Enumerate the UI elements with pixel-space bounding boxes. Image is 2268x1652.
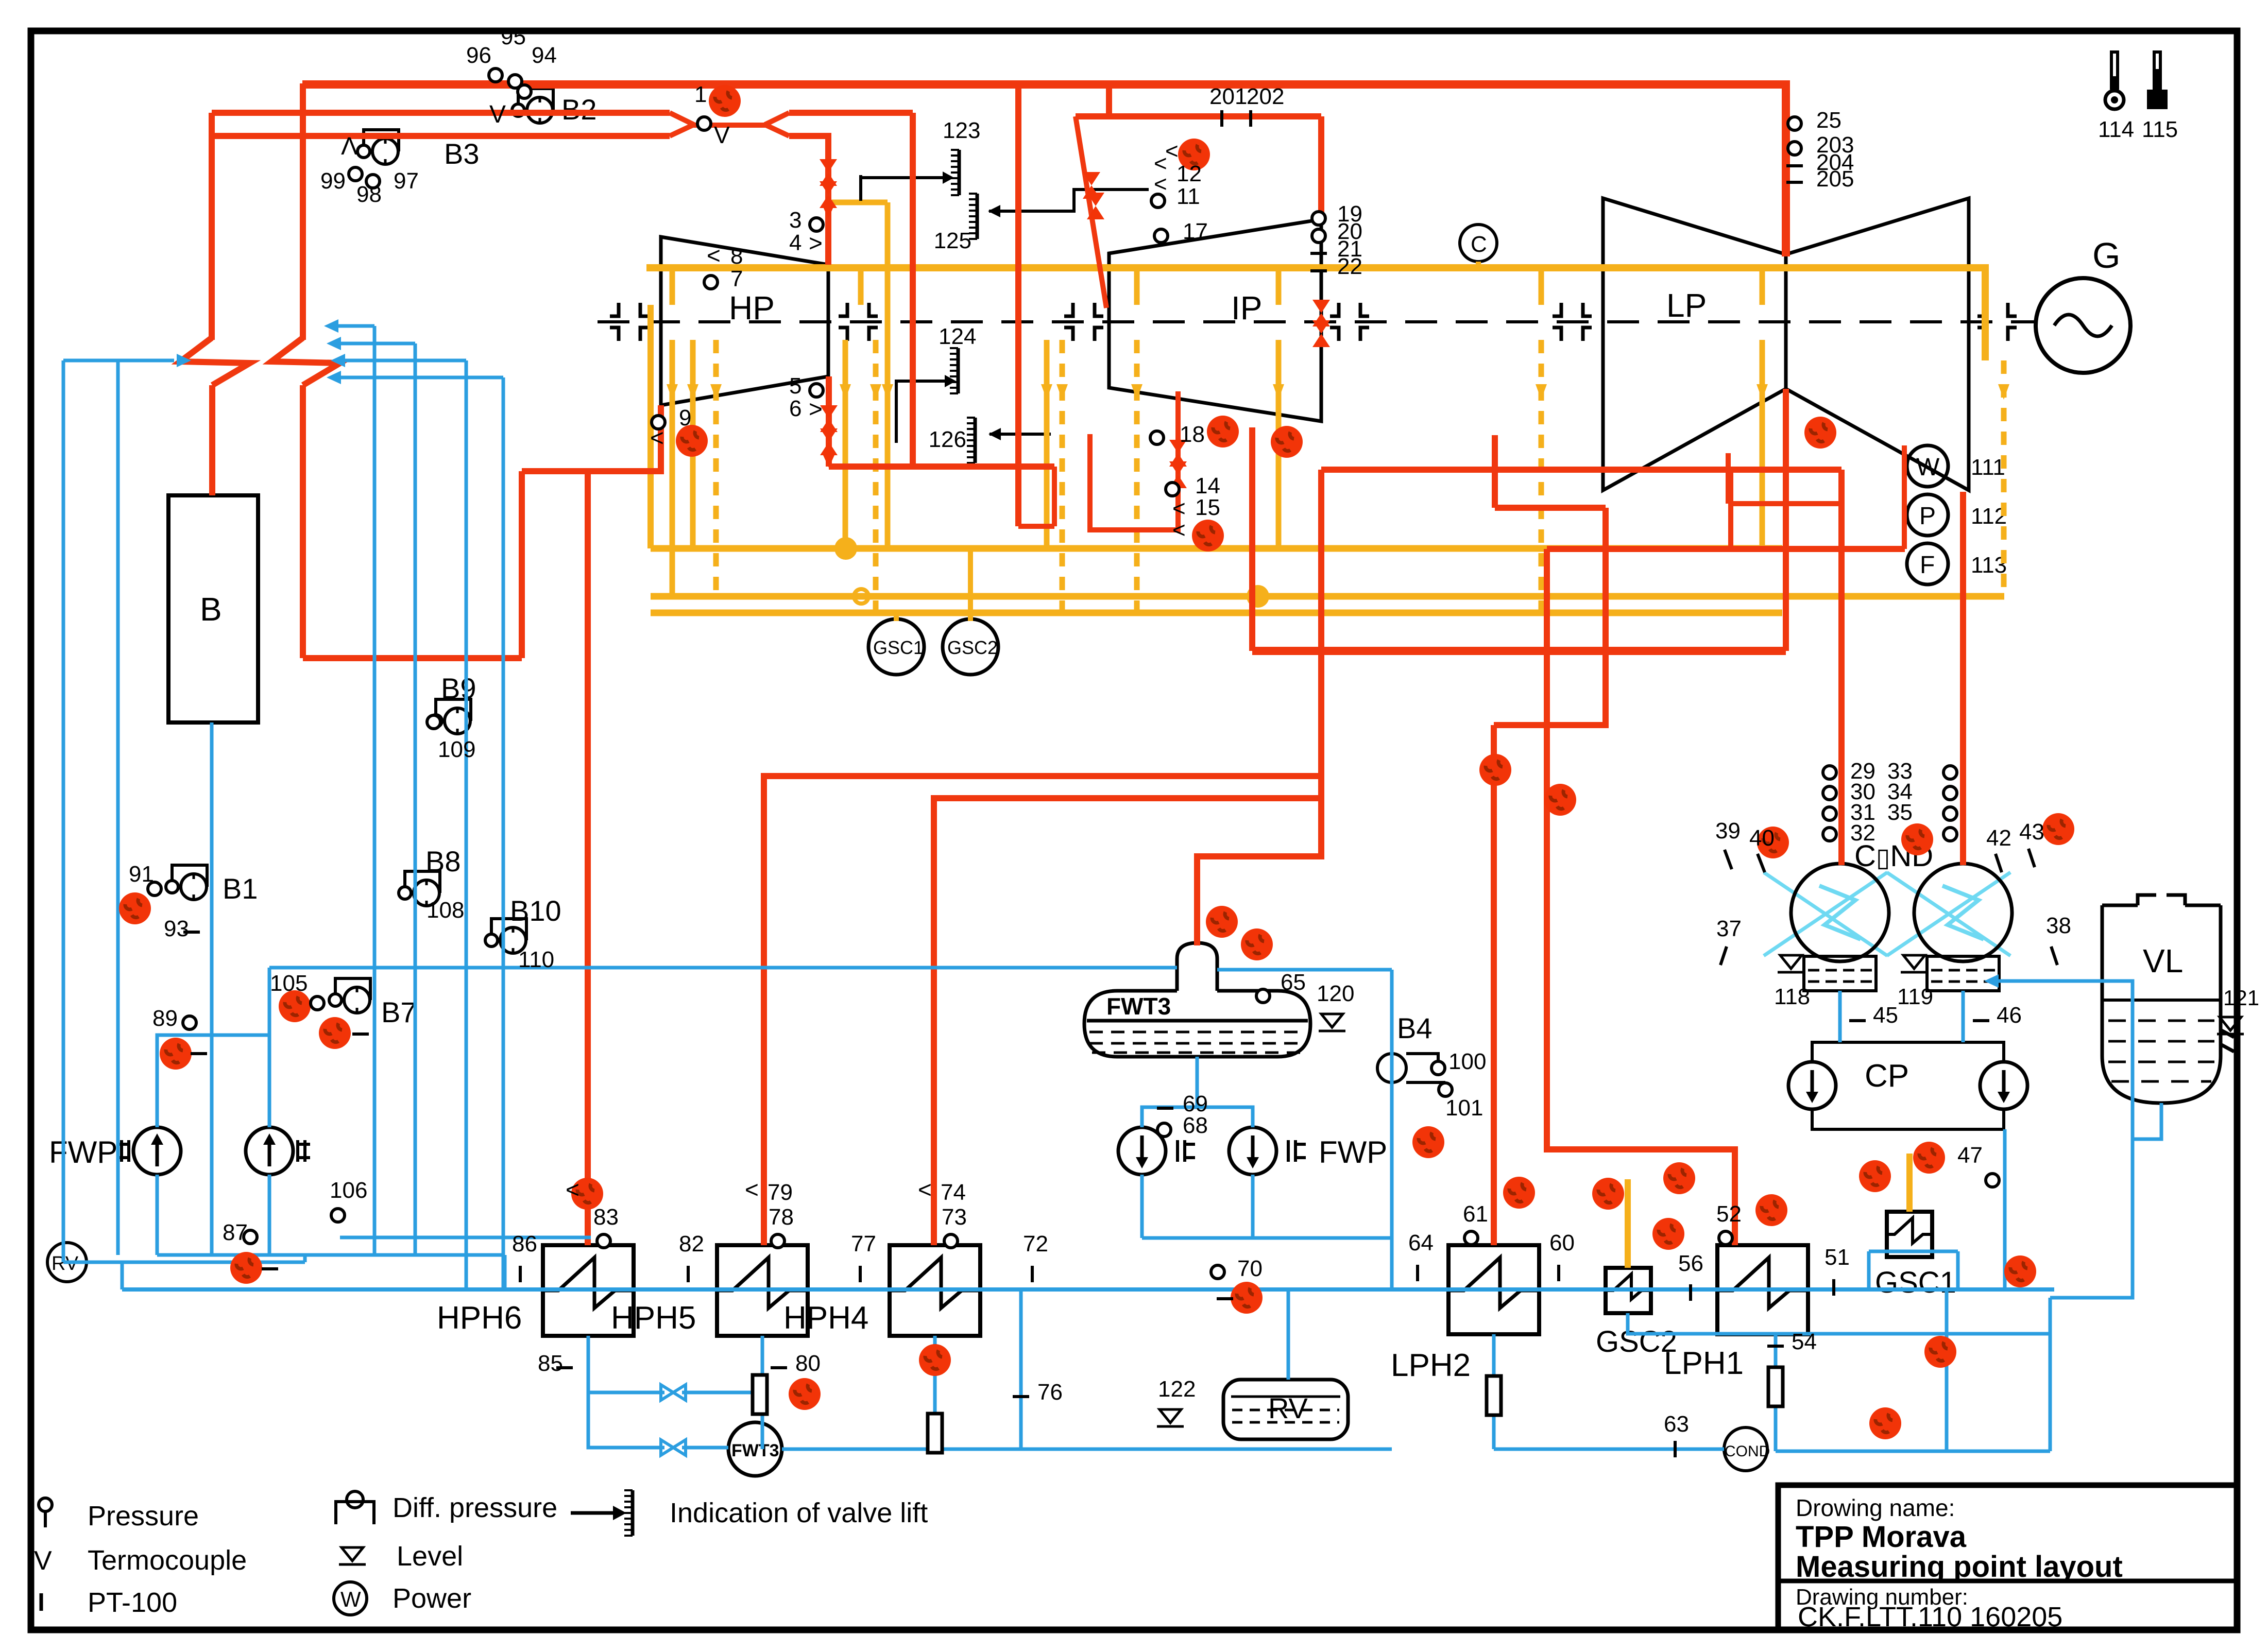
COND small circle (1724, 1427, 1770, 1471)
heater HPH4 (783, 1245, 980, 1336)
svg-text:<: < (918, 1176, 932, 1203)
svg-text:<: < (1165, 139, 1179, 164)
extraction to HPH5 (764, 776, 1322, 1245)
title block (1778, 1485, 2237, 1632)
svg-text:96: 96 (466, 43, 491, 68)
gland steam header (top) (646, 268, 1985, 360)
measuring fan marker at 3239,2396 (1652, 1218, 1684, 1250)
cond2 out (1962, 991, 1965, 1042)
cond1 out (1838, 991, 1842, 1042)
svg-text:V: V (714, 122, 730, 148)
svg-text:93: 93 (164, 916, 189, 941)
boiler steam riser upper (209, 113, 215, 340)
junction ring (854, 589, 868, 604)
spray header y=733 (340, 376, 503, 380)
svg-text:42: 42 (1986, 825, 2011, 851)
steam line throat (693, 123, 766, 128)
riser 2 (414, 343, 417, 1255)
svg-text:125: 125 (934, 228, 971, 253)
diff pressure sensor B1 (166, 865, 258, 905)
valve arrow (823, 206, 834, 218)
downcomer to reheat lower (300, 385, 306, 658)
svg-text:83: 83 (593, 1204, 619, 1230)
measuring fan marker at 2498,858 (1271, 426, 1303, 458)
shaft gland x=1666 (839, 303, 878, 341)
measuring fan marker at 262,1764 (119, 892, 151, 924)
svg-text:73: 73 (942, 1204, 967, 1230)
svg-text:54: 54 (1792, 1329, 1817, 1354)
B4 line (1390, 970, 1394, 1289)
svg-text:8: 8 (730, 244, 743, 269)
blue valve at 1307,2704 (661, 1385, 686, 1400)
svg-text:PT-100: PT-100 (88, 1587, 177, 1618)
cold reheat up (519, 471, 525, 658)
RV link drop (303, 1255, 307, 1262)
LP extraction mid (1728, 470, 1733, 549)
GSC1 loop top (1869, 1250, 1958, 1253)
gland steam bus 1 (651, 545, 1782, 552)
crossover to condenser (1321, 467, 1841, 473)
svg-text:W: W (340, 1587, 361, 1611)
svg-text:118: 118 (1774, 984, 1810, 1009)
svg-text:5: 5 (789, 373, 802, 399)
svg-text:Indication of valve lift: Indication of valve lift (670, 1498, 928, 1528)
gland steam drop x=1345 (690, 340, 696, 548)
measuring fan marker at 3922,2469 (2004, 1255, 2036, 1287)
measuring fan marker at 3640,2284 (1859, 1160, 1891, 1192)
measuring fan marker at 3442,1636 (1757, 827, 1789, 858)
svg-text:60: 60 (1549, 1230, 1575, 1255)
svg-text:6: 6 (789, 396, 802, 421)
svg-text:68: 68 (1183, 1113, 1208, 1138)
svg-text:76: 76 (1037, 1380, 1063, 1405)
HP inlet branch (910, 113, 916, 467)
measuring fan marker at 3122,2318 (1592, 1178, 1624, 1210)
svg-text:GSC2: GSC2 (947, 637, 998, 658)
svg-text:W: W (1916, 454, 1940, 481)
svg-text:GSC1: GSC1 (873, 637, 924, 658)
shaft gland x=1222 (610, 303, 649, 341)
svg-text:109: 109 (438, 737, 475, 762)
legend: diff pressure (336, 1491, 557, 1524)
measuring fan marker at 1343,856 (676, 425, 708, 457)
heater LPH1 (1664, 1245, 1808, 1381)
LP exhaust to COND2 (1960, 492, 1966, 865)
measuring fan marker at 1815,2641 (919, 1344, 951, 1376)
diff pressure sensor B9 (430, 672, 476, 734)
RV circle (47, 1243, 87, 1282)
svg-text:65: 65 (1281, 970, 1306, 995)
svg-text:7: 7 (730, 266, 743, 291)
svg-text:99: 99 (320, 168, 346, 194)
steam to FWT3 (1197, 470, 1321, 945)
IP inlet right (1318, 116, 1324, 219)
svg-text:32: 32 (1850, 820, 1875, 846)
measuring fan marker at 3660,2764 (1869, 1407, 1901, 1439)
svg-text:110: 110 (518, 947, 554, 972)
GSC2 stem (968, 548, 973, 621)
measuring fan marker at 341,2046 (160, 1038, 192, 1070)
gland steam drop x=3421 (1760, 340, 1765, 548)
valve stem elbow (859, 175, 862, 201)
gland steam drop x=2062 (1060, 340, 1065, 613)
IP exhaust link (1495, 505, 1606, 511)
heater HPH6 (437, 1245, 634, 1336)
svg-text:F: F (1920, 552, 1935, 579)
IP feed tee (1106, 84, 1112, 116)
HP bottom drain (826, 376, 832, 467)
measuring fan marker at 3722,1630 (1901, 823, 1933, 855)
FWP discharge drop (503, 1255, 507, 1289)
svg-text:78: 78 (769, 1204, 794, 1230)
svg-text:Measuring point layout: Measuring point layout (1796, 1550, 2123, 1584)
pump1 out (156, 1175, 159, 1255)
measuring fan marker at 2374,838 (1207, 416, 1239, 448)
svg-text:86: 86 (512, 1231, 537, 1257)
gland steam drop x=1723 (885, 202, 891, 548)
svg-text:121: 121 (2223, 986, 2259, 1010)
svg-text:202: 202 (1247, 84, 1284, 109)
svg-text:108: 108 (427, 898, 464, 923)
HP exhaust header (829, 463, 1054, 470)
svg-text:Power: Power (393, 1583, 471, 1614)
HP turbine (661, 237, 828, 405)
valve lift ruler 125 (934, 190, 1149, 253)
svg-text:GSC1: GSC1 (1875, 1266, 1956, 1299)
condenser COND at x=3811 (1887, 864, 2012, 1009)
svg-text:123: 123 (943, 118, 980, 143)
GSC2 drain (1628, 1313, 2050, 1334)
FWP pumps (left) (49, 1127, 310, 1175)
deaerator suction line (269, 966, 1177, 970)
valve lift ruler 123 (861, 118, 980, 195)
thermometer 115 (2142, 50, 2178, 142)
GSC2 supply (1625, 1179, 1631, 1268)
HP exhaust (522, 405, 661, 471)
orifice at 3447,2655 (1768, 1367, 1783, 1406)
gland stub top x=2207 (1134, 268, 1140, 305)
diff pressure sensor B3 (357, 130, 480, 170)
diff pressure sensor B7 (329, 978, 417, 1028)
C stem (1476, 262, 1481, 268)
orifice at 1815,2745 (928, 1414, 942, 1453)
valve at 2565,608 (1312, 300, 1330, 326)
svg-text:77: 77 (851, 1231, 876, 1257)
svg-text:126: 126 (929, 427, 966, 452)
svg-text:119: 119 (1897, 984, 1933, 1009)
svg-text:B: B (200, 591, 222, 628)
svg-text:IP: IP (1231, 289, 1262, 326)
heater HPH5 (611, 1245, 808, 1336)
GSC1 stem (894, 613, 899, 621)
measuring fan marker at 1140,2318 (571, 1178, 603, 1210)
IP inlet slant (1076, 116, 1106, 308)
extraction header lower (1547, 546, 1905, 552)
svg-text:82: 82 (679, 1231, 704, 1257)
valve lift ruler 126 (929, 418, 1051, 463)
svg-text:18: 18 (1180, 422, 1205, 447)
svg-text:47: 47 (1957, 1143, 1983, 1168)
attemperator zigzag (180, 338, 250, 385)
pumpR2 out (1251, 1175, 1255, 1238)
svg-text:LPH2: LPH2 (1391, 1348, 1471, 1383)
gland steam bus 3 (651, 610, 1782, 616)
GSC1 loop a (1867, 1251, 1871, 1290)
svg-text:25: 25 (1816, 108, 1841, 133)
svg-text:51: 51 (1824, 1245, 1850, 1270)
riser 4 (502, 377, 505, 1289)
svg-text:89: 89 (152, 1006, 178, 1031)
diff pressure sensor B8 (399, 845, 461, 906)
svg-text:111: 111 (1971, 455, 2005, 480)
gland stub top x=1671 (858, 268, 864, 305)
HPH6 drain A (588, 1336, 664, 1392)
svg-text:64: 64 (1408, 1230, 1434, 1255)
svg-text:105: 105 (270, 971, 308, 996)
svg-text:B7: B7 (381, 996, 417, 1028)
legend: level (339, 1541, 463, 1572)
HP bypass return (1052, 467, 1057, 526)
junction dot (1247, 585, 1269, 608)
pump suction loop (157, 1035, 269, 1127)
aux line 106 (340, 1236, 591, 1240)
boiler steam riser lower (209, 385, 215, 495)
gland steam bus 2 (651, 593, 2004, 600)
svg-text:94: 94 (532, 43, 557, 68)
LP extraction link (1728, 501, 1841, 506)
svg-text:P: P (1919, 503, 1936, 530)
measuring fan marker at 1407,196 (709, 85, 741, 117)
valve at 2565,648 (1312, 320, 1330, 347)
C sensor circle (1460, 225, 1497, 262)
LP turbine (1603, 198, 1969, 490)
svg-text:79: 79 (768, 1180, 793, 1205)
spray into attemperator 1 (63, 359, 174, 363)
steam to LPH1 (1547, 549, 1735, 1245)
svg-text:115: 115 (2142, 117, 2178, 142)
svg-text:37: 37 (1716, 916, 1742, 941)
svg-text:101: 101 (1445, 1095, 1483, 1121)
HPH4 drain (933, 1336, 937, 1414)
condensate/feed main (122, 1287, 2054, 1292)
condensate pumps CP (1788, 1042, 2027, 1129)
pump2 out (268, 1175, 271, 1255)
RV flash tank (1157, 1376, 1348, 1439)
svg-text:39: 39 (1715, 818, 1741, 844)
valve at 1609,858 (820, 428, 838, 455)
svg-text:GSC2: GSC2 (1596, 1325, 1677, 1358)
CP discharge (2003, 1129, 2007, 1290)
LPH2 drain (1492, 1334, 1496, 1449)
diff pressure sensor B10 (485, 894, 561, 953)
valve at 1608,378 (820, 181, 837, 208)
FWT3 deaerator tank (1084, 943, 1310, 1057)
gland steam drop x=3890 (2001, 360, 2007, 596)
LPH1 drain (1774, 1334, 1778, 1451)
gland stub top x=2482 (1276, 268, 1282, 305)
svg-text:B9: B9 (441, 672, 476, 704)
valve at 2119,360 (1083, 172, 1100, 199)
right web drop (2049, 1298, 2052, 1451)
HPH6 drain B (588, 1392, 664, 1448)
generator G (2036, 235, 2130, 373)
W P F legend circles (1907, 445, 2007, 584)
gland steam drop x=1641 (843, 340, 848, 548)
to COND circle (1494, 1448, 1724, 1451)
svg-text:FWP: FWP (1319, 1135, 1387, 1169)
FWP discharge header (157, 1253, 505, 1257)
drain header (1776, 1450, 2050, 1453)
76 drop (1019, 1289, 1023, 1449)
valve at 1609,813 (820, 405, 838, 432)
svg-text:B8: B8 (425, 845, 461, 877)
gland steam drop x=2992 (1539, 340, 1544, 613)
junction dot (834, 537, 857, 560)
svg-text:Termocouple: Termocouple (88, 1545, 247, 1576)
measuring fan marker at 650,2006 (319, 1017, 351, 1049)
boiler downcomer (210, 722, 214, 1255)
svg-text:B4: B4 (1397, 1012, 1433, 1044)
svg-text:17: 17 (1183, 219, 1208, 244)
heater LPH2 (1391, 1245, 1539, 1383)
measuring point labels (129, 24, 2071, 1457)
svg-text:122: 122 (1158, 1376, 1196, 1402)
svg-text:63: 63 (1664, 1412, 1689, 1437)
bypass U (1018, 524, 1054, 529)
svg-text:38: 38 (2046, 913, 2071, 938)
measuring fan marker at 3029,1553 (1544, 784, 1576, 816)
svg-text:61: 61 (1463, 1201, 1488, 1227)
steam line lower b / HP inlet (789, 136, 828, 265)
RV tank feed (1287, 1289, 1290, 1380)
IP extraction 2 (1249, 427, 1255, 651)
FWT3 down B (1197, 1107, 1253, 1127)
cold reheat bottom (303, 655, 522, 661)
shaft gland x=2104 (1064, 303, 1103, 341)
svg-text:11: 11 (1176, 184, 1200, 209)
svg-text:72: 72 (1023, 1231, 1048, 1257)
svg-text:<: < (566, 1176, 579, 1203)
extraction to HPH4 (934, 798, 1322, 1245)
measuring fan marker at 2372,1790 (1206, 906, 1238, 938)
svg-text:FWT3: FWT3 (1106, 993, 1171, 1020)
svg-text:Λ: Λ (341, 133, 357, 160)
crossover header (1252, 647, 1786, 655)
svg-text:<: < (1172, 518, 1186, 543)
svg-text:35: 35 (1887, 800, 1913, 825)
svg-text:Drowing name:: Drowing name: (1796, 1494, 1955, 1521)
valve lift ruler 124 (896, 324, 976, 443)
svg-text:45: 45 (1873, 1003, 1898, 1028)
GSC1 loop b (1956, 1251, 1960, 1290)
svg-text:<: < (650, 424, 664, 451)
IP exhaust drop (1492, 435, 1498, 508)
svg-text:G: G (2092, 235, 2120, 276)
svg-text:FWT3: FWT3 (731, 1441, 779, 1460)
drain to FWT3 circle (682, 1446, 728, 1450)
valve at 2287,922 (1169, 461, 1187, 488)
riser 3 (465, 360, 468, 1289)
svg-text:Pressure: Pressure (88, 1501, 199, 1531)
drain drop (1945, 1290, 1949, 1451)
gland stub top x=2992 (1539, 268, 1544, 305)
turbine shaft (598, 320, 2037, 323)
measuring fan marker at 2420,2520 (1231, 1282, 1263, 1314)
svg-text:LP: LP (1666, 287, 1707, 324)
svg-text:>: > (809, 230, 823, 256)
svg-text:201: 201 (1209, 84, 1247, 109)
FWP pumps (right) (1118, 1127, 1387, 1175)
HPH5 drain b (761, 1414, 764, 1449)
steam line upper (212, 110, 670, 116)
HP bypass leg (1015, 84, 1021, 526)
GSC1 gauge circle (868, 619, 924, 675)
condenser COND at x=3572 (1764, 864, 1889, 1009)
reducer neck in (670, 113, 694, 136)
spray riser left (116, 360, 120, 1255)
gland leakoff elbow (832, 200, 888, 205)
svg-text:85: 85 (538, 1351, 563, 1376)
svg-text:HPH6: HPH6 (437, 1300, 522, 1336)
boiler B (168, 495, 258, 722)
gland steam drop x=1390 (713, 340, 719, 596)
svg-text:46: 46 (1997, 1003, 2022, 1028)
gland steam drop x=2032 (1044, 340, 1050, 548)
svg-text:CK.F.LTT.110 160205: CK.F.LTT.110 160205 (1798, 1602, 2062, 1632)
steam line upper b (789, 110, 913, 116)
spray header y=667 (340, 342, 415, 346)
measuring fan marker at 478,2462 (230, 1252, 262, 1284)
left feed down (62, 360, 65, 1262)
VL tank (2102, 895, 2259, 1103)
svg-text:74: 74 (941, 1180, 966, 1205)
measuring fan marker at 1562,2707 (789, 1378, 821, 1410)
yellow riser left (647, 305, 654, 548)
svg-text:COND: COND (1725, 1443, 1770, 1460)
GSC2 gauge circle (943, 619, 998, 675)
svg-text:B1: B1 (223, 872, 258, 905)
LP exhaust to COND1 (1838, 470, 1845, 865)
measuring fan marker at 2345,1040 (1192, 520, 1224, 552)
svg-text:56: 56 (1678, 1251, 1703, 1276)
valve arrow lower (823, 455, 834, 468)
measuring fan marker at 2773,2218 (1412, 1126, 1444, 1158)
IP turbine (1109, 219, 1321, 421)
svg-text:40: 40 (1749, 825, 1775, 851)
hot reheat header (1076, 113, 1321, 119)
VL bottom (2133, 1103, 2161, 1139)
FWT3 down A (1142, 1057, 1197, 1127)
svg-text:RV: RV (1268, 1392, 1308, 1424)
gland steam drop x=2482 (1276, 340, 1282, 548)
FWT3 small circle (728, 1422, 782, 1476)
svg-text:B3: B3 (444, 137, 480, 170)
svg-text:B10: B10 (510, 894, 561, 927)
svg-text:<: < (707, 242, 721, 269)
gland steam drop x=1305 (670, 340, 675, 596)
legend: PT-100 (41, 1587, 177, 1618)
measuring fan marker at 2949,2316 (1503, 1177, 1535, 1209)
spray header y=633 (337, 324, 374, 328)
svg-text:80: 80 (795, 1351, 821, 1376)
measuring fan marker at 2440,1834 (1241, 928, 1273, 960)
measuring fan marker at 572,1954 (279, 990, 311, 1022)
IP drain loop (1090, 391, 1178, 530)
valve at 1608,335 (820, 159, 837, 186)
steam riser to HPH6 (585, 471, 591, 1245)
riser 1 (373, 326, 377, 1255)
legend: thermocouple (34, 1545, 247, 1576)
